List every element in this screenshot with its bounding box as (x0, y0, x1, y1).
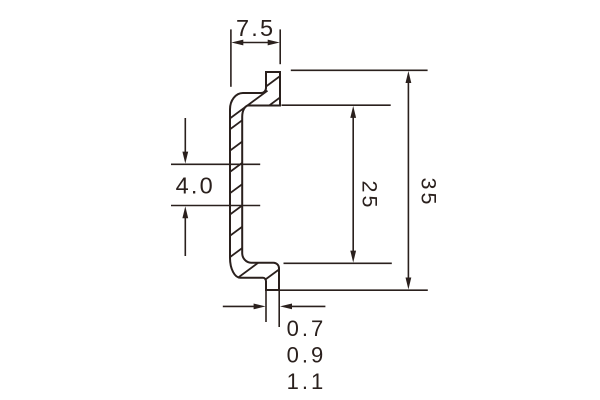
arrowhead 7.5 left (231, 40, 243, 46)
hatch flange long diagonal (229, 91, 268, 120)
extension line left (230, 29, 232, 86)
arrowhead thickness right-pointing (254, 304, 266, 310)
dimension thickness 0.7/0.9/1.1 (223, 291, 326, 327)
hatch web 4 (229, 182, 246, 194)
hatch bottom leg (237, 262, 260, 279)
svg-text:25: 25 (358, 181, 382, 211)
dimension 25 (282, 105, 392, 263)
arrowhead 4.0 up (182, 206, 188, 218)
hatch tab top (264, 75, 282, 88)
svg-text:1.1: 1.1 (287, 369, 327, 394)
arrowhead 35 down (406, 278, 412, 290)
arrowhead 35 up (406, 71, 412, 83)
extension line tab right (278, 291, 280, 327)
extension line top (282, 104, 391, 106)
arrow shaft left (223, 305, 256, 307)
extension line top (291, 69, 428, 71)
svg-text:0.7: 0.7 (287, 316, 327, 341)
extension line right (279, 29, 281, 64)
hatch web 7 (229, 246, 246, 258)
svg-text:0.9: 0.9 (287, 342, 327, 367)
extension line bottom (284, 262, 392, 264)
svg-text:7.5: 7.5 (236, 15, 275, 41)
hatch web 5 (229, 203, 246, 215)
arrowhead 7.5 right (268, 40, 280, 46)
arrow shaft right (290, 305, 325, 307)
hatch web 2 (229, 140, 246, 152)
svg-text:35: 35 (416, 178, 440, 208)
hatch lines (section hatching) (229, 75, 283, 281)
profile cross-section sheet outline (230, 72, 280, 290)
extension line tab left (265, 291, 267, 322)
hatch web 1 (229, 118, 246, 130)
dimension 35 (266, 70, 428, 290)
dimension 4.0 (171, 118, 260, 256)
feature line lower (171, 205, 260, 207)
arrow shaft upper (184, 118, 186, 154)
dimension line (352, 115, 354, 254)
arrowhead 25 down (350, 251, 356, 263)
hatch bottom tab corner (264, 268, 281, 281)
arrow shaft lower (184, 216, 186, 256)
dimension line (407, 80, 409, 281)
hatch web 6 (229, 225, 246, 237)
svg-text:4.0: 4.0 (176, 172, 215, 198)
hatch web 3 (229, 161, 246, 173)
dimension 7.5 (231, 29, 280, 86)
arrowhead 25 up (350, 106, 356, 118)
dimension line (242, 42, 269, 44)
hatch flange right corner (267, 96, 283, 108)
feature line upper (171, 163, 260, 165)
arrowhead 4.0 down (182, 152, 188, 164)
extension line bottom (266, 289, 428, 291)
arrowhead thickness left-pointing (280, 304, 292, 310)
